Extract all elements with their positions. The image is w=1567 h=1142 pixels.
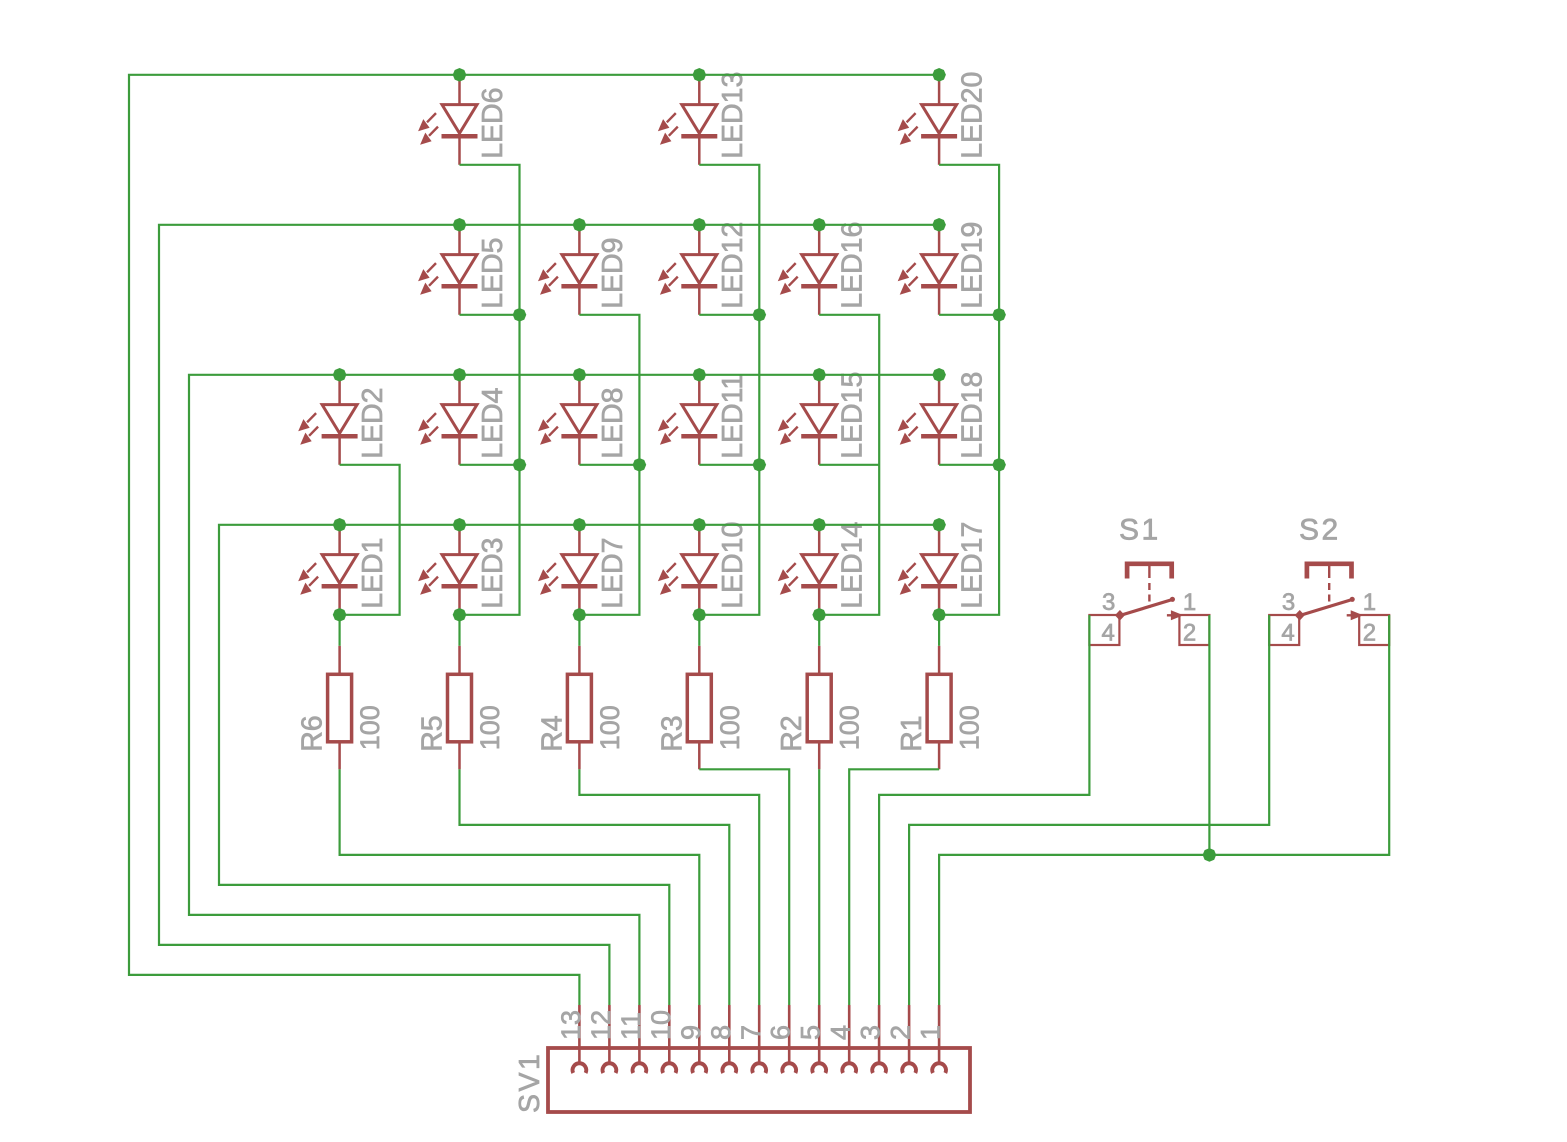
resistor R3 xyxy=(687,646,711,770)
svg-text:LED4: LED4 xyxy=(477,387,509,458)
wire net COL4 cathode stub row3 xyxy=(699,464,759,466)
LED LED3 xyxy=(418,525,477,615)
svg-text:100: 100 xyxy=(475,705,505,750)
wire net COL5 cathode stub row3 xyxy=(819,464,879,466)
svg-text:LED17: LED17 xyxy=(957,522,989,609)
junction anode row3 col4 xyxy=(693,368,707,382)
junction anode row3 col1 xyxy=(333,368,347,382)
junction anode row2 col4 xyxy=(693,218,707,232)
junction anode row3 col3 xyxy=(573,368,587,382)
junction anode row3 col6 xyxy=(932,368,946,382)
LED LED12 xyxy=(658,225,717,315)
svg-text:10: 10 xyxy=(646,1010,676,1040)
svg-text:R3: R3 xyxy=(656,715,688,751)
svg-text:6: 6 xyxy=(766,1025,796,1040)
wire net COL6 cathode chain xyxy=(939,165,999,615)
wire net COL2 cathode stub row2 xyxy=(460,314,520,316)
svg-text:S2: S2 xyxy=(1299,514,1341,547)
svg-text:100: 100 xyxy=(595,705,625,750)
wire net SV1 pin3 to S1 pin4 xyxy=(879,615,1089,1005)
wire net R2 bottom to SV1 pin5 xyxy=(818,769,820,1005)
svg-text:LED6: LED6 xyxy=(477,88,509,159)
junction cathode chain col3 row3 xyxy=(633,458,647,472)
junction cathode chain col6 row3 xyxy=(992,458,1006,472)
resistor R6 xyxy=(328,646,352,770)
svg-text:LED8: LED8 xyxy=(597,388,629,459)
wire net COL2 cathode stub row3 xyxy=(460,464,520,466)
connector SV1 pin 2 xyxy=(902,1005,916,1073)
wire net COL6 cathode stub row2 xyxy=(939,314,999,316)
svg-text:LED12: LED12 xyxy=(717,222,749,309)
connector SV1 pin 6 xyxy=(782,1005,796,1073)
wire net COL4 cathode chain xyxy=(699,165,759,615)
junction anode row2 col5 xyxy=(812,218,826,232)
svg-text:LED10: LED10 xyxy=(717,522,749,609)
resistor R2 xyxy=(807,646,831,770)
LED LED10 xyxy=(658,525,717,615)
wire net COL5 cathode chain xyxy=(819,315,879,615)
LED LED5 xyxy=(418,225,477,315)
wire net SV1 pin1 to S2 pin2 xyxy=(939,615,1389,1005)
wire net stub junction to R3 xyxy=(698,615,700,646)
wire net R1 bottom to SV1 pin4 xyxy=(849,769,939,1005)
svg-text:13: 13 xyxy=(556,1010,586,1040)
svg-text:R4: R4 xyxy=(536,715,568,752)
svg-text:1: 1 xyxy=(916,1025,946,1040)
connector SV1 pin 13 xyxy=(573,1005,587,1073)
svg-text:12: 12 xyxy=(586,1010,616,1040)
connector SV1 body xyxy=(548,1048,970,1112)
wire net COL3 cathode stub row3 xyxy=(579,464,639,466)
wire net COL4 cathode stub row2 xyxy=(699,314,759,316)
junction cathode chain col4 row3 xyxy=(753,458,767,472)
connector SV1 pin 7 xyxy=(752,1005,766,1073)
junction cathode chain col2 row2 xyxy=(513,308,527,322)
svg-text:100: 100 xyxy=(355,705,385,750)
junction anode row4 col4 xyxy=(693,518,707,532)
svg-text:S1: S1 xyxy=(1119,514,1161,547)
svg-text:11: 11 xyxy=(616,1012,646,1040)
wire net ROW2: SV1 pin12 left/up to anode bus y=224.8 xyxy=(159,225,939,1005)
svg-text:LED19: LED19 xyxy=(957,222,989,309)
wire net COL6 cathode stub row3 xyxy=(939,464,999,466)
wire net stub junction to R2 xyxy=(818,615,820,646)
connector SV1 pin 5 xyxy=(812,1005,826,1073)
LED LED14 xyxy=(778,525,837,615)
svg-text:SV1: SV1 xyxy=(514,1052,546,1113)
connector SV1 pin 1 xyxy=(932,1005,946,1073)
wire net R5 bottom to SV1 pin8 xyxy=(460,769,730,1005)
junction anode row1 col2 xyxy=(453,68,467,82)
junction top of R3 xyxy=(693,608,707,622)
svg-text:LED7: LED7 xyxy=(597,538,629,609)
wire net COL1 cathode chain xyxy=(340,465,400,615)
wire net branch junction to S1 pin2 xyxy=(1208,615,1210,855)
wire net stub junction to R1 xyxy=(938,615,940,646)
connector SV1 pin 12 xyxy=(603,1005,617,1073)
resistor R1 xyxy=(927,646,951,770)
wire net COL3 cathode chain xyxy=(579,315,639,615)
wire net ROW1: SV1 pin13 left/up to anode bus y=74.8 xyxy=(129,75,939,1005)
svg-text:LED18: LED18 xyxy=(957,372,989,459)
junction anode row2 col3 xyxy=(573,218,587,232)
svg-text:R5: R5 xyxy=(417,715,449,751)
LED LED1 xyxy=(298,525,357,615)
svg-text:5: 5 xyxy=(796,1025,826,1040)
junction anode row2 col2 xyxy=(453,218,467,232)
connector SV1 pin 10 xyxy=(662,1005,676,1073)
connector SV1 pin 11 xyxy=(633,1005,647,1073)
LED LED19 xyxy=(898,225,957,315)
LED LED16 xyxy=(778,225,837,315)
wire net R6 bottom to SV1 pin9 xyxy=(340,769,700,1005)
switch S2 xyxy=(1269,564,1389,647)
junction anode row4 col6 xyxy=(932,518,946,532)
junction top of R4 xyxy=(573,608,587,622)
junction anode row3 col2 xyxy=(453,368,467,382)
svg-text:LED2: LED2 xyxy=(357,388,389,459)
svg-text:R2: R2 xyxy=(776,715,808,751)
resistor R4 xyxy=(567,646,591,770)
junction anode row1 col6 xyxy=(932,68,946,82)
svg-text:7: 7 xyxy=(736,1025,766,1040)
junction anode row1 col4 xyxy=(693,68,707,82)
resistor R5 xyxy=(448,646,472,770)
junction anode row4 col3 xyxy=(573,518,587,532)
junction cathode chain col2 row3 xyxy=(513,458,527,472)
svg-text:LED15: LED15 xyxy=(837,372,869,459)
junction top of R5 xyxy=(453,608,467,622)
svg-text:9: 9 xyxy=(676,1025,706,1040)
svg-text:LED20: LED20 xyxy=(957,72,989,159)
LED LED15 xyxy=(778,375,837,465)
svg-text:3: 3 xyxy=(856,1025,886,1040)
LED LED20 xyxy=(898,75,957,165)
junction cathode chain col4 row2 xyxy=(753,308,767,322)
junction top of R6 xyxy=(333,608,347,622)
junction top of R2 xyxy=(812,608,826,622)
svg-text:LED16: LED16 xyxy=(837,222,869,309)
svg-text:LED13: LED13 xyxy=(717,72,749,159)
LED LED18 xyxy=(898,375,957,465)
wire net R3 bottom to SV1 pin6 xyxy=(699,769,789,1005)
svg-text:LED9: LED9 xyxy=(597,238,629,309)
wire net ROW3: SV1 pin11 left/up to anode bus y=374.8 xyxy=(189,375,939,1005)
LED LED11 xyxy=(658,375,717,465)
connector SV1 pin 3 xyxy=(872,1005,886,1073)
wire net stub junction to R4 xyxy=(578,615,580,646)
wire net R4 bottom to SV1 pin7 xyxy=(579,769,759,1005)
junction anode row3 col5 xyxy=(812,368,826,382)
LED LED7 xyxy=(538,525,597,615)
svg-text:100: 100 xyxy=(955,705,985,750)
junction switch net xyxy=(1203,848,1217,862)
LED LED6 xyxy=(418,75,477,165)
svg-text:LED1: LED1 xyxy=(357,538,389,609)
connector SV1 pin 4 xyxy=(842,1005,856,1073)
wire net SV1 pin2 to S2 pin4 xyxy=(909,615,1269,1005)
junction anode row4 col1 xyxy=(333,518,347,532)
wire net stub junction to R6 xyxy=(339,615,341,646)
connector SV1 pin 9 xyxy=(692,1005,706,1073)
svg-text:2: 2 xyxy=(886,1025,916,1040)
svg-text:LED5: LED5 xyxy=(477,238,509,309)
wire net COL2 cathode chain xyxy=(460,165,520,615)
junction anode row4 col5 xyxy=(812,518,826,532)
svg-text:R6: R6 xyxy=(297,715,329,751)
connector SV1 pin 8 xyxy=(722,1005,736,1073)
LED LED4 xyxy=(418,375,477,465)
junction top of R1 xyxy=(932,608,946,622)
LED LED9 xyxy=(538,225,597,315)
svg-text:100: 100 xyxy=(715,705,745,750)
junction anode row4 col2 xyxy=(453,518,467,532)
junction anode row2 col6 xyxy=(932,218,946,232)
svg-text:100: 100 xyxy=(835,705,865,750)
svg-text:8: 8 xyxy=(706,1025,736,1040)
svg-text:LED3: LED3 xyxy=(477,538,509,609)
svg-text:4: 4 xyxy=(826,1025,856,1040)
LED LED2 xyxy=(298,375,357,465)
LED LED13 xyxy=(658,75,717,165)
svg-text:LED14: LED14 xyxy=(837,522,869,609)
svg-text:LED11: LED11 xyxy=(717,374,749,459)
junction cathode chain col6 row2 xyxy=(992,308,1006,322)
LED LED17 xyxy=(898,525,957,615)
wire net stub junction to R5 xyxy=(458,615,460,646)
switch S1 xyxy=(1089,564,1209,647)
LED LED8 xyxy=(538,375,597,465)
svg-text:R1: R1 xyxy=(896,715,928,751)
wire net ROW4: SV1 pin10 left/up to anode bus y=524.8 xyxy=(219,525,939,1005)
